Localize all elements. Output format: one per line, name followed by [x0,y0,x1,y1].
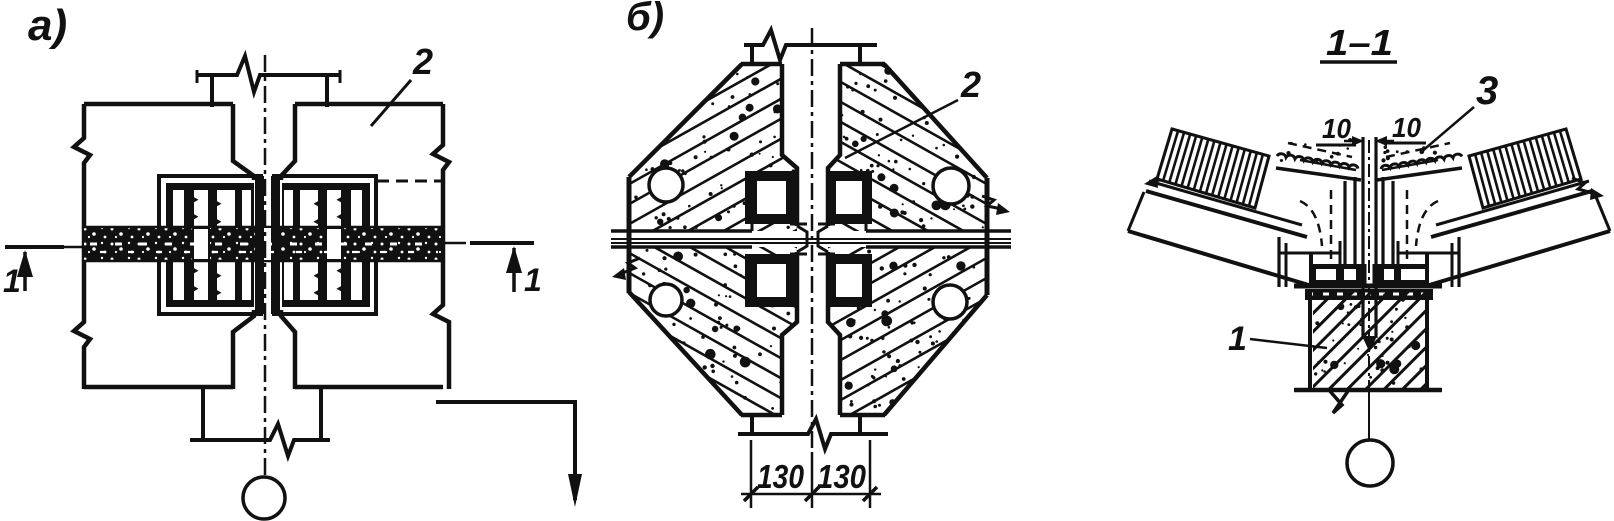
band center seam gap [264,228,271,260]
shear key lower-right [828,254,872,307]
shear key lower-left [745,254,797,307]
vertical panel right edge with neck chamfer bottom [281,310,295,389]
lower-left concrete stipple [733,253,736,256]
column concrete stipple [1354,305,1358,309]
vertical panel right edge with neck chamfer top [281,104,295,180]
left panel outer edge with break marks [74,104,90,389]
vertical panel right edge bottom [828,252,840,415]
shear key upper-right [828,171,872,224]
leader line for label 2 [845,100,958,158]
right panel top slope edge [1377,168,1462,180]
upper-left concrete stipple [736,73,739,76]
leader line for label 3 [1420,107,1474,153]
svg-text:130: 130 [757,458,805,495]
dimension tick middle [805,487,819,501]
wall panel top break line [197,56,340,92]
left panel top edge [84,102,233,107]
wall panel top edge left stub [210,75,214,107]
vertical panel left edge with neck chamfer bottom [233,310,254,389]
octagon top-left chamfer [629,64,742,177]
svg-text:1: 1 [3,263,21,299]
right slab top finish line [1436,181,1589,225]
panel seat verticals [1309,252,1313,286]
dimension extension line left [750,440,753,508]
octagon left side [627,177,632,293]
sealant dots [1330,155,1334,159]
panel bottom break stub left [750,415,754,434]
left dashed screed line [1288,143,1352,157]
octagon bottom side left [741,413,782,418]
weld teeth right box [337,196,344,203]
panel bottom break line [738,419,888,449]
left hidden dashed face [1330,190,1333,264]
right slab break arrow [1572,178,1596,194]
mortar cells white [1316,269,1336,280]
view direction elbow line [436,402,575,500]
bottom break stub right [319,387,323,441]
dimension tick left [744,487,758,501]
left slab end verticals [1277,237,1280,287]
column left side [1308,289,1312,390]
right dashed screed line [1386,143,1450,157]
horizontal joint upper ledge [790,223,807,226]
dimension extension line middle [811,452,814,508]
svg-text:1–1: 1–1 [1326,22,1393,63]
wall panel top edge right stub [325,75,329,107]
bearing stub left [1279,252,1341,255]
svg-text:1: 1 [524,262,542,298]
right dashed bend arc [1416,201,1438,246]
seat line [1294,284,1442,289]
octagon bottom side right [840,413,885,418]
right slab top edge [1431,191,1592,237]
right slab end verticals [1457,237,1460,287]
left dashed bend arc [1300,201,1322,246]
column right side [1425,289,1429,390]
right slab bottom edge [1426,231,1610,286]
band white bar crossing left box [193,228,209,260]
octagon top-right chamfer [884,64,987,178]
title underline [1320,60,1397,64]
section arrow right bar [470,241,534,245]
left panel top slope edge [1276,168,1361,180]
svg-text:10: 10 [1392,112,1421,143]
horizontal joint lower ledge [790,253,807,256]
vertical axis dash-dot [264,55,267,476]
octagon bottom-left chamfer [629,292,742,415]
column bottom break zigzag [1329,390,1348,413]
band mid white squiggle [90,243,440,246]
break line end ticks [196,70,199,83]
section arrow left head [17,250,33,277]
svg-text:130: 130 [817,458,867,495]
right box interior dark field [290,191,362,299]
svg-text:3: 3 [1476,69,1498,113]
bottom break stub left [201,387,205,441]
svg-text:б): б) [626,0,664,39]
band white bar crossing right box [326,228,342,260]
gap arrows [1344,140,1360,143]
column top mortar bed [1305,289,1433,300]
sleeve circle lower-left [650,284,682,316]
dimension extension line right [869,440,872,508]
left slab top edge [1146,191,1307,237]
left bent panel inner face [1343,181,1346,267]
panel bottom break stub right [858,415,862,434]
horizontal joint thin lines [611,238,1011,240]
right panel top inner slope [1382,160,1438,170]
center joint left line [1361,137,1364,338]
floor slab stippled band [84,228,443,260]
bottom break line [190,424,330,456]
octagon bottom-right chamfer [884,295,987,415]
svg-text:10: 10 [1322,113,1351,144]
left box interior dark field [174,191,246,299]
lower-right concrete stipple [872,399,876,403]
weld teeth left box [192,196,199,203]
leader line for label 1 [1250,339,1327,348]
column bottom line [1294,388,1442,393]
svg-text:1: 1 [1228,320,1247,358]
octagon top side left [741,62,782,67]
svg-text:2: 2 [412,41,433,82]
vertical panel right edge top [828,64,840,226]
dimension line [741,493,881,496]
left connection box outer [159,176,261,314]
break arrow right [982,196,1002,209]
octagon right side [985,178,990,295]
right box anchor slots lower [283,260,294,301]
bearing stub right [1397,252,1459,255]
right panel bottom edge [295,385,443,390]
vertical axis dash-dot [811,28,814,452]
left box anchor slots upper [172,189,185,230]
break arrow left [620,258,640,274]
right insulation band [1469,129,1581,208]
horizontal joint upper edge [611,229,752,233]
leader line for label 2 [371,80,411,126]
mortar joint row black band [1311,264,1427,285]
right panel top edge [295,102,443,107]
left connection box inner thick frame [170,187,250,303]
right connection box inner thick frame [286,187,366,303]
svg-text:а): а) [28,1,67,50]
slab band top edge [84,226,443,229]
center joint right line [1374,137,1377,338]
section arrow left bar [5,245,64,249]
left sealant scallop row [1277,154,1358,169]
left slab break arrow [1152,166,1176,182]
section arrow left shaft [23,252,27,291]
axis line to circle [1368,390,1370,442]
right sealant scallop row [1381,154,1462,169]
axis stub right [443,242,466,245]
right box anchor slots upper [283,189,294,230]
slab band bottom edge [84,260,443,263]
center joint tip [1362,336,1377,352]
horizontal joint lower edge [611,245,752,249]
vertical panel left edge bottom [782,252,797,415]
column concrete hatch [1313,291,1425,388]
shear key upper-left [745,171,797,224]
left 10 underline [1316,144,1356,147]
left slab end cap [1128,192,1144,231]
view direction arrow head [568,474,582,507]
vertical panel left edge top [782,64,797,226]
axis stub left [62,246,84,249]
dashed hidden line right of box [377,180,441,183]
sleeve circle upper-left [649,168,683,202]
panel top right stub [858,45,862,66]
left slab top finish line [1149,181,1302,225]
dimension tick right [863,487,877,501]
left panel bottom edge [84,385,233,390]
left slab bottom edge [1128,231,1312,286]
right slab end cap [1594,192,1610,231]
section arrow right shaft [512,248,516,292]
upper-right concrete stipple [982,226,984,228]
axis dash-dot center [1368,140,1370,388]
right 10 underline [1386,142,1426,145]
right panel outer edge with break marks [433,104,449,389]
axis circle [243,477,285,519]
vertical panel left edge with neck chamfer top [233,104,254,180]
joint seam strips between boxes [255,176,264,314]
panel waist at joint [797,226,807,252]
right bent panel inner face [1381,177,1384,267]
center joint white slit [1367,238,1373,298]
sleeve circle lower-right [933,285,967,319]
panel top left stub [750,45,754,66]
left box anchor slots lower [172,260,185,301]
section arrow right head [506,246,522,273]
side vertical left [1339,241,1342,266]
left panel top inner slope [1300,160,1356,170]
left insulation band [1157,129,1269,208]
side vertical right [1397,241,1400,266]
sleeve circle upper-right [933,168,969,204]
axis circle [1347,440,1393,486]
octagon top side right [840,62,885,67]
svg-text:2: 2 [960,64,981,105]
right hidden dashed face [1406,190,1409,264]
right connection box outer [274,176,376,314]
panel top break line [744,30,877,60]
